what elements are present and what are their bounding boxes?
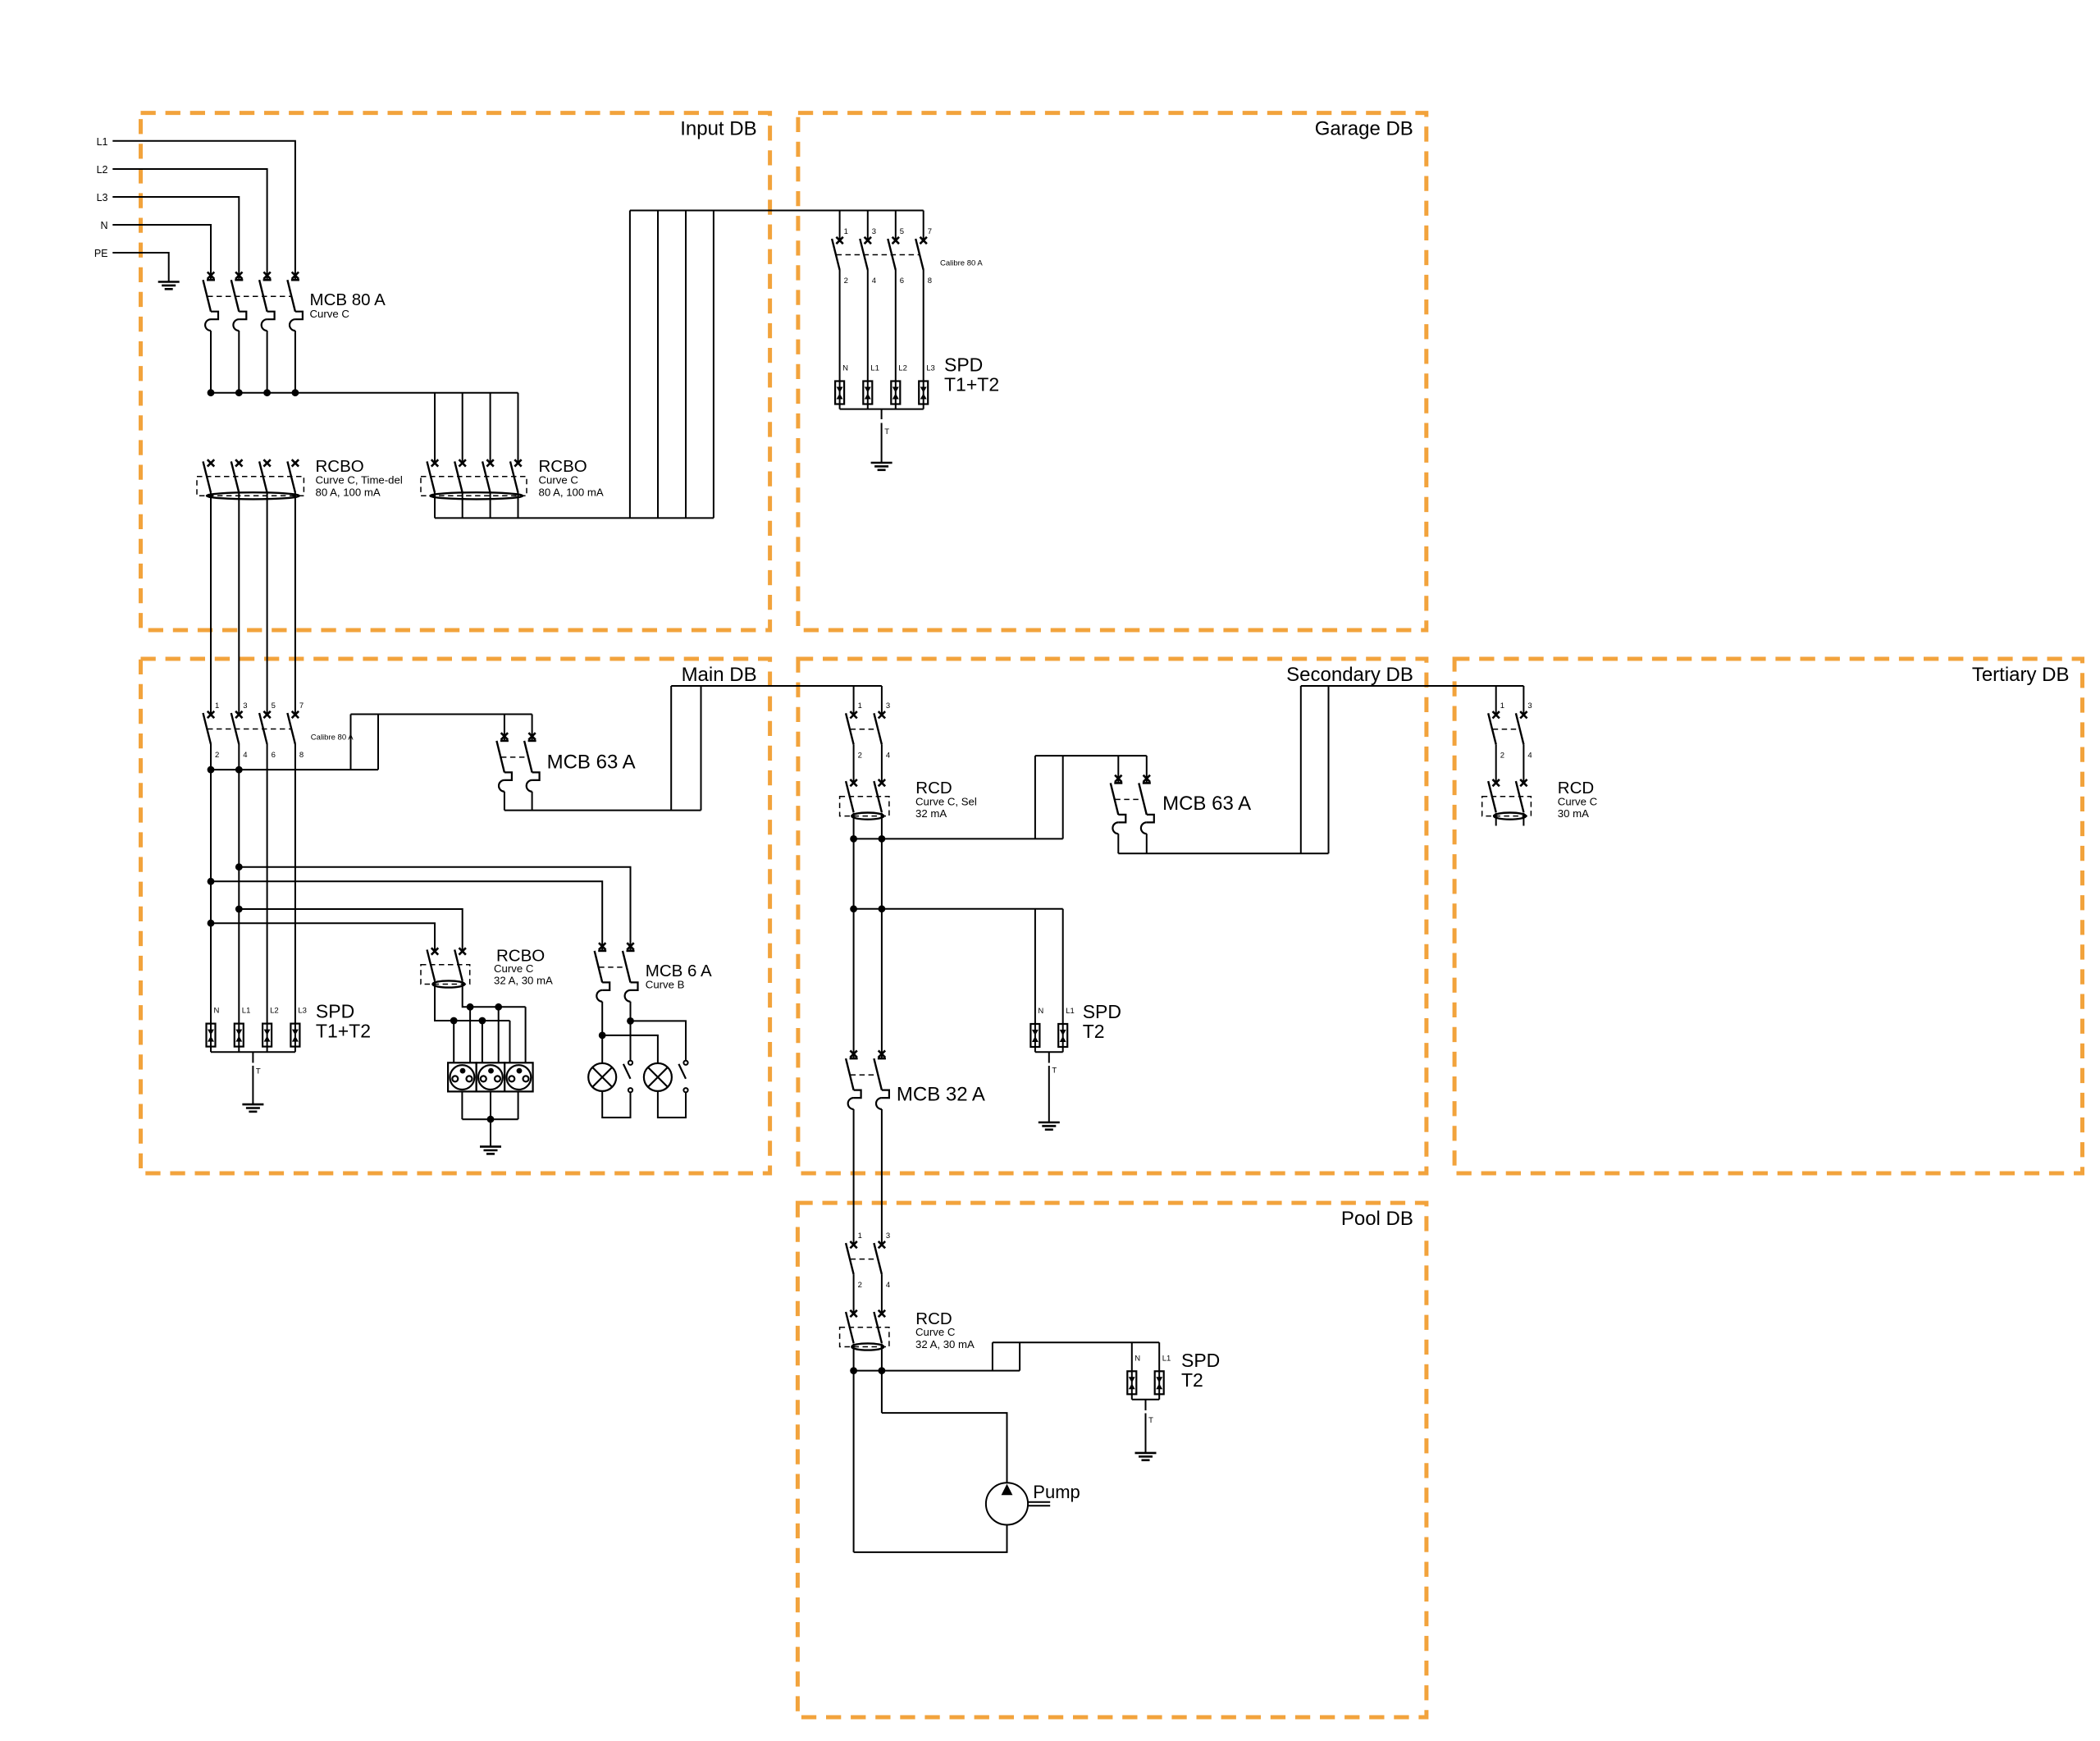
RCBO F2 pole 4 (510, 459, 522, 492)
junction F4 out 2 (879, 835, 886, 843)
socket outlet X3 (504, 1062, 533, 1091)
svg-text:3: 3 (886, 701, 890, 711)
RCBO F2 pole 3 (482, 459, 494, 492)
RCBO F2 pole 1 (427, 459, 439, 492)
svg-text:2: 2 (858, 1281, 862, 1290)
wire switch S2 feed (631, 1021, 687, 1060)
svg-text:1: 1 (215, 701, 219, 711)
RCD F4 pole 2 (874, 779, 885, 812)
wire bus to RCBO F2 pole 1 (434, 393, 436, 464)
RCD F5 label 30 mA (1558, 807, 1589, 820)
junction node L2 bus (235, 766, 243, 774)
svg-text:3: 3 (1527, 701, 1532, 711)
MCB Q1 pole 4 (287, 272, 303, 393)
lamp E1 (588, 1063, 616, 1091)
isolator SW4 mechanical link (1493, 729, 1520, 730)
distribution board enclosure: Pool DB (797, 1203, 1427, 1717)
RCD F6 label Curve C (915, 1326, 956, 1338)
svg-text:7: 7 (928, 227, 932, 236)
RCD F4 label Curve C, Sel (915, 795, 977, 807)
svg-text:T1+T2: T1+T2 (316, 1021, 371, 1042)
svg-text:30 mA: 30 mA (1558, 807, 1589, 820)
isolator SW5 pole 2 (pins 3/4) (874, 1231, 890, 1290)
wire socket earth bus (462, 1118, 518, 1120)
wire riser 1 to Garage DB (629, 211, 631, 519)
board label Main DB (682, 664, 757, 686)
wire SW5 pole 1 to RCD F6 (853, 1274, 855, 1314)
SPD3 output bus (1035, 1051, 1063, 1053)
feeder L2 wire (112, 169, 267, 280)
wire SPD4 drop N (1131, 1342, 1133, 1371)
SPD1 cell L2 (891, 364, 907, 409)
SPD3 earth lead T (1049, 1052, 1057, 1122)
feeder L2 label (97, 164, 108, 176)
wire F3 neutral bus (435, 981, 510, 1021)
wire Secondary feed stub 1 (853, 686, 855, 715)
wire pump feed (882, 1413, 1007, 1483)
svg-text:T1+T2: T1+T2 (944, 374, 999, 395)
wire Q2 output bus (504, 810, 701, 811)
SPD2 ground (242, 1104, 263, 1112)
distribution board enclosure: Input DB (141, 113, 770, 630)
svg-text:T: T (1052, 1067, 1057, 1076)
feeder N label (100, 220, 107, 231)
isolator SW2 pole 2 (pins 3/4) (231, 701, 248, 760)
svg-text:N: N (1038, 1007, 1043, 1016)
svg-text:1: 1 (1500, 701, 1504, 711)
RCD F5 pole 2 (1516, 779, 1527, 812)
wire F6 pole 2 out (881, 1344, 883, 1414)
wire RCBO F2 pole 4 to bus (518, 492, 519, 518)
svg-text:5: 5 (272, 701, 276, 711)
distribution board enclosure: Garage DB (798, 113, 1427, 630)
svg-text:2: 2 (844, 276, 848, 286)
MCB Q2 label MCB 63 A (547, 752, 636, 774)
svg-text:T2: T2 (1181, 1369, 1203, 1391)
RCBO F1 label RCBO (316, 457, 364, 476)
svg-text:MCB 63 A: MCB 63 A (1162, 793, 1251, 815)
junction bus-Q1 pole 2 (235, 389, 243, 396)
wire SPD4 riser QB (1019, 1342, 1020, 1370)
svg-text:L1: L1 (870, 364, 879, 373)
RCBO F1 pole 3 (259, 459, 271, 492)
wire Tertiary feed stub 1 (1495, 686, 1497, 715)
wire SW3 pole 1 to RCD F4 (853, 744, 855, 783)
MCB Q1 pole 3 (259, 272, 275, 393)
board label Secondary DB (1286, 664, 1413, 686)
wire N to MCB6A (211, 881, 602, 951)
feeder PE label (94, 248, 108, 259)
svg-text:1: 1 (858, 1231, 862, 1241)
junction socket earth (487, 1116, 495, 1123)
wire Secondary DB to Tertiary DB (1301, 685, 1524, 687)
wire riser 3 to Garage DB (685, 211, 687, 519)
wire SW2 pole 2 below (238, 744, 240, 1024)
junction switch feed (627, 1017, 634, 1025)
svg-text:Curve C: Curve C (494, 962, 534, 975)
wire socket L drop 3 (525, 1007, 527, 1062)
svg-text:32 A, 30 mA: 32 A, 30 mA (494, 975, 553, 987)
junction N to MCB6A (208, 878, 215, 885)
wire F6 pole 1 out (853, 1344, 855, 1552)
wire F1 pole 1 to Main DB (210, 492, 212, 715)
MCB Q2 mechanical link (501, 756, 528, 758)
board label Pool DB (1341, 1208, 1413, 1230)
wire riser 4 to Garage DB (713, 211, 714, 519)
MCB Q3 pole 2 (623, 943, 638, 1021)
wire SPD4 drop L1 (1158, 1342, 1160, 1371)
wire SW3 pole 2 to RCD F4 (881, 744, 883, 783)
RCBO F1 toroid dashed box (197, 477, 304, 496)
junction F6 out 2 (879, 1367, 886, 1374)
wire Main DB to Secondary DB (671, 685, 882, 687)
isolator SW5 mechanical link (851, 1259, 878, 1260)
MCB Q2 pole 1 (496, 715, 512, 811)
svg-text:T2: T2 (1083, 1021, 1105, 1042)
junction N to RCBO F3 (208, 920, 215, 927)
svg-text:Main DB: Main DB (682, 664, 757, 686)
svg-text:L2: L2 (97, 164, 108, 176)
isolator SW5 pole 1 (pins 1/2) (846, 1231, 862, 1290)
isolator SW1 mechanical link (837, 254, 920, 256)
distribution board enclosure: Secondary DB (798, 659, 1427, 1173)
svg-text:L3: L3 (298, 1007, 307, 1016)
wire Q2 feed bus (351, 714, 532, 715)
RCBO F3 toroid (432, 980, 464, 987)
isolator SW4 pole 1 (pins 1/2) (1488, 701, 1504, 760)
wire SPD4 riser QA (992, 1342, 993, 1370)
RCD F4 toroid dashed box (840, 797, 889, 816)
wire riser K1 (350, 715, 352, 770)
SPD1 label T1+T2 (944, 374, 999, 395)
RCD F5 toroid dashed box (1482, 797, 1532, 816)
svg-text:6: 6 (900, 276, 904, 286)
svg-text:Curve C: Curve C (915, 1326, 956, 1338)
wire L1 to RCBO F3 (239, 909, 462, 952)
wire F1 pole 4 to Main DB (294, 492, 296, 715)
wire SW2 pole 3 below (267, 744, 268, 1024)
svg-text:8: 8 (299, 751, 304, 760)
SPD4 output bus (1132, 1399, 1159, 1401)
svg-text:SPD: SPD (944, 354, 983, 376)
wire F4 pole 1 out (853, 813, 855, 1059)
MCB Q3 label MCB 6 A (646, 962, 712, 980)
MCB Q4 pole 2 (1139, 756, 1154, 853)
svg-text:1: 1 (858, 701, 862, 711)
wire riser K2 (377, 715, 379, 770)
junction L1 to RCBO F3 (235, 906, 243, 913)
RCD F4 toroid (851, 813, 883, 820)
svg-text:Curve C, Sel: Curve C, Sel (915, 795, 977, 807)
svg-text:2: 2 (858, 751, 862, 760)
junction SPD3 feed 2 (879, 905, 886, 912)
svg-text:N: N (1134, 1354, 1140, 1363)
junction bus-Q1 pole 3 (263, 389, 271, 396)
svg-text:L1: L1 (242, 1007, 251, 1016)
SPD1 cell L3 (919, 364, 935, 409)
isolator SW1 pole 3 (pins 5/6) (888, 211, 904, 286)
MCB Q5 mechanical link (851, 1074, 878, 1076)
junction SPD3 feed 1 (850, 905, 857, 912)
RCD F4 label 32 mA (915, 807, 947, 820)
isolator SW3 mechanical link (851, 729, 878, 730)
RCBO F1 toroid (207, 492, 299, 499)
board label Tertiary DB (1972, 664, 2070, 686)
svg-text:Garage DB: Garage DB (1315, 118, 1413, 140)
RCD F5 label RCD (1558, 779, 1594, 797)
SPD1 earth lead T (882, 409, 890, 463)
svg-text:N: N (214, 1007, 220, 1016)
wire lamp E2 feed (602, 1035, 658, 1063)
SPD4 cell N (1127, 1354, 1140, 1400)
junction node L1 bus (208, 766, 215, 774)
svg-text:7: 7 (299, 701, 304, 711)
svg-text:L1: L1 (1162, 1354, 1171, 1363)
wire riser PA up (1034, 756, 1036, 839)
isolator SW2 pole 1 (pins 1/2) (203, 701, 220, 760)
wire SPD3 lower run (854, 908, 1063, 910)
SPD4 label SPD (1181, 1350, 1220, 1371)
SPD1 output bus (840, 409, 924, 410)
SPD2 label T1+T2 (316, 1021, 371, 1042)
svg-text:80 A, 100 mA: 80 A, 100 mA (539, 486, 604, 498)
feeder L3 label (97, 192, 108, 203)
pump M1 (986, 1483, 1050, 1524)
MCB Q4 label MCB 63 A (1162, 793, 1251, 815)
svg-text:3: 3 (243, 701, 247, 711)
SPD3 label T2 (1083, 1021, 1105, 1042)
wire Q4 feed bus (1035, 755, 1147, 756)
MCB Q1 pole 2 (231, 272, 247, 393)
svg-text:2: 2 (215, 751, 219, 760)
wire SW1 pole 3 to SPD1 (895, 270, 897, 382)
RCBO F2 label Curve C (539, 473, 579, 486)
RCBO F2 pole 2 (454, 459, 466, 492)
isolator SW3 pole 2 (pins 3/4) (874, 701, 890, 760)
svg-text:32 mA: 32 mA (915, 807, 947, 820)
wire RCBO F2 pole 2 to bus (462, 492, 463, 518)
pump label (1033, 1482, 1080, 1502)
SPD4 earth lead T (1146, 1400, 1154, 1453)
svg-text:Pool DB: Pool DB (1341, 1208, 1413, 1230)
wire SW5 pole 2 to RCD F6 (881, 1274, 883, 1314)
RCBO F1 pole 1 (203, 459, 215, 492)
SPD1 cell N (835, 364, 848, 409)
svg-text:T: T (256, 1067, 261, 1076)
svg-text:L2: L2 (270, 1007, 279, 1016)
RCD F6 toroid dashed box (840, 1327, 889, 1347)
isolator SW2 label Calibre 80 A (311, 733, 354, 743)
RCBO F3 label 32 A, 30 mA (494, 975, 553, 987)
MCB Q5 pole 1 (846, 1050, 861, 1245)
RCBO F2 label RCBO (539, 457, 587, 476)
socket outlet X1 (448, 1062, 477, 1091)
MCB Q1 mechanical link (208, 295, 291, 297)
wire socket L drop (469, 1007, 471, 1062)
MCB Q4 pole 1 (1111, 756, 1126, 853)
svg-text:Curve C, Time-del: Curve C, Time-del (316, 473, 403, 486)
wire SW4 pole 2 to RCD F5 (1522, 744, 1524, 783)
wire lamp E2 return (658, 1091, 686, 1117)
svg-text:Curve C: Curve C (310, 308, 350, 320)
RCD F5 pole 1 (1488, 779, 1500, 812)
wire socket L drop (498, 1007, 500, 1062)
RCD F6 label 32 A, 30 mA (915, 1338, 975, 1350)
svg-text:4: 4 (872, 276, 876, 286)
wire riser OR2 (1328, 686, 1330, 853)
wire riser R1 (670, 686, 672, 811)
junction bus-Q1 pole 1 (208, 389, 215, 396)
svg-text:4: 4 (886, 751, 890, 760)
isolator SW2 pole 4 (pins 7/8) (287, 701, 304, 760)
MCB Q3 pole 1 (595, 943, 610, 1035)
SPD1 cell L1 (863, 364, 879, 409)
wire socket earth drop (490, 1119, 491, 1146)
svg-text:Curve B: Curve B (646, 979, 685, 991)
isolator SW2 mechanical link (208, 729, 291, 730)
wire socket N drop (482, 1021, 483, 1062)
svg-text:4: 4 (1527, 751, 1532, 760)
svg-text:1: 1 (844, 227, 848, 236)
MCB Q3 label Curve B (646, 979, 685, 991)
distribution board enclosure: Main DB (141, 659, 770, 1173)
SPD4 cell L1 (1155, 1354, 1171, 1400)
junction L drop 2 (495, 1003, 502, 1011)
svg-text:4: 4 (886, 1281, 890, 1290)
RCD F4 pole 1 (846, 779, 857, 812)
wire lamp E1 feed (601, 1035, 603, 1063)
wire SPD4 lower run (854, 1370, 1020, 1372)
wire bus to RCBO F2 pole 3 (490, 393, 491, 464)
wire riser R2 (701, 686, 702, 811)
wire F3 line bus (463, 981, 526, 1008)
RCBO F3 toroid dashed box (421, 965, 470, 985)
isolator SW2 pole 3 (pins 5/6) (259, 701, 276, 760)
wire SW2 to Q2 lower run (211, 769, 378, 770)
switch S1 (623, 1061, 632, 1093)
wire lamp E1 return (602, 1091, 630, 1117)
wire RCBO F2 pole 3 to bus (490, 492, 491, 518)
wire switch S1 feed (630, 1021, 632, 1060)
SPD3 ground (1039, 1122, 1060, 1130)
wire F5 pole 1 stub (1495, 813, 1497, 826)
MCB Q5 pole 2 (874, 1050, 889, 1245)
MCB Q1 pole 1 (203, 272, 219, 393)
svg-text:3: 3 (872, 227, 876, 236)
MCB Q4 mechanical link (1115, 798, 1143, 800)
SPD1 ground (871, 463, 892, 470)
distribution board enclosure: Tertiary DB (1454, 659, 2082, 1173)
MCB Q2 pole 2 (524, 715, 540, 811)
feeder N wire (112, 225, 211, 280)
wire RCBO F2 pole 1 to bus (434, 492, 436, 518)
junction F6 out 1 (850, 1367, 857, 1374)
svg-text:PE: PE (94, 248, 108, 259)
SPD2 cell L1 (235, 1007, 251, 1053)
MCB Q5 label MCB 32 A (897, 1084, 985, 1106)
isolator SW3 pole 1 (pins 1/2) (846, 701, 862, 760)
svg-text:Calibre 80 A: Calibre 80 A (311, 733, 354, 743)
svg-text:T: T (884, 427, 889, 436)
isolator SW1 pole 4 (pins 7/8) (915, 211, 932, 286)
svg-text:L1: L1 (97, 136, 108, 148)
junction N drop 1 (450, 1017, 458, 1025)
wire F2 output bus (435, 517, 714, 519)
svg-text:80 A, 100 mA: 80 A, 100 mA (316, 486, 381, 498)
socket earth ground (480, 1147, 501, 1154)
wire F5 pole 2 stub (1522, 813, 1524, 826)
RCD F6 pole 1 (846, 1310, 857, 1343)
RCBO F2 toroid dashed box (421, 477, 527, 496)
board label Garage DB (1315, 118, 1413, 140)
board label Input DB (680, 118, 756, 140)
SPD3 label SPD (1083, 1001, 1121, 1022)
MCB Q1 label MCB 80 A (310, 290, 386, 309)
SPD3 cell N (1030, 1007, 1043, 1052)
svg-text:6: 6 (272, 751, 276, 760)
wire SW4 pole 1 to RCD F5 (1495, 744, 1497, 783)
SPD4 label T2 (1181, 1369, 1203, 1391)
svg-text:L3: L3 (926, 364, 935, 373)
svg-text:MCB 32 A: MCB 32 A (897, 1084, 985, 1106)
wire L1 to MCB6A (239, 867, 630, 951)
wire SW1 pole 2 to SPD1 (867, 270, 869, 382)
RCD F6 label RCD (915, 1309, 952, 1328)
svg-text:Tertiary DB: Tertiary DB (1972, 664, 2070, 686)
RCBO F3 pole 1 (427, 948, 439, 980)
svg-text:L2: L2 (898, 364, 907, 373)
wire SW1 pole 1 to SPD1 (839, 270, 841, 382)
SPD1 label SPD (944, 354, 983, 376)
SPD2 output bus (211, 1051, 295, 1053)
wire socket N drop (453, 1021, 454, 1062)
RCD F6 pole 2 (874, 1310, 885, 1343)
SPD2 cell L2 (262, 1007, 279, 1053)
RCBO F1 pole 2 (231, 459, 243, 492)
wire SW2 pole 1 below (210, 744, 212, 1024)
wire SW1 pole 4 to SPD1 (923, 270, 924, 382)
wire bus to RCBO F2 pole 4 (518, 393, 519, 464)
wire Q4 output bus (1118, 852, 1328, 854)
switch S2 (678, 1061, 687, 1093)
wire bus to RCBO F2 pole 2 (462, 393, 463, 464)
svg-text:Input DB: Input DB (680, 118, 756, 140)
socket outlet X2 (477, 1062, 505, 1091)
feeder L3 wire (112, 197, 239, 280)
RCD F4 label RCD (915, 779, 952, 797)
wire F1 pole 2 to Main DB (238, 492, 240, 715)
wire Input DB to Garage DB (630, 210, 924, 212)
isolator SW1 pole 2 (pins 3/4) (860, 211, 876, 286)
isolator SW1 pole 1 (pins 1/2) (832, 211, 848, 286)
isolator SW4 pole 2 (pins 3/4) (1516, 701, 1532, 760)
wire SPD3 drop N (1034, 909, 1036, 1024)
svg-text:3: 3 (886, 1231, 890, 1241)
PE ground (158, 282, 180, 290)
svg-text:N: N (842, 364, 848, 373)
junction L1 to MCB6A (235, 863, 243, 870)
svg-text:SPD: SPD (1083, 1001, 1121, 1022)
svg-text:Calibre 80 A: Calibre 80 A (940, 259, 983, 268)
isolator SW1 label Calibre 80 A (940, 259, 983, 268)
RCD F5 label Curve C (1558, 795, 1598, 807)
wire SW2 pole 4 below (294, 744, 296, 1024)
feeder L1 wire (112, 141, 295, 280)
RCBO F3 label RCBO (496, 946, 545, 965)
wire socket X2 earth (490, 1091, 491, 1119)
junction lamp feed (599, 1032, 606, 1040)
RCD F6 toroid (851, 1343, 883, 1350)
